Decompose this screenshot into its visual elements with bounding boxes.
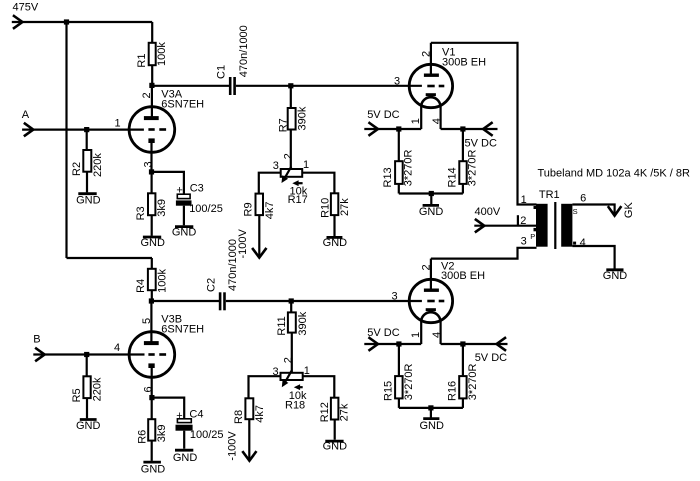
resistor R4 [135, 258, 168, 301]
pentode-section labels upper right: tube V1 [394, 43, 486, 129]
svg-text:R14: R14 [447, 167, 459, 187]
svg-text:220k: 220k [92, 153, 104, 177]
svg-text:4: 4 [114, 342, 120, 354]
svg-text:5V DC: 5V DC [367, 327, 399, 339]
svg-text:4k7: 4k7 [264, 202, 276, 220]
svg-text:2: 2 [420, 264, 432, 270]
svg-text:4: 4 [431, 332, 443, 338]
resistor R3 [135, 172, 168, 236]
svg-text:3: 3 [273, 160, 279, 172]
junction R16 top [460, 341, 465, 346]
svg-text:6SN7EH: 6SN7EH [161, 99, 204, 111]
wire cathode to C4 [152, 398, 184, 419]
svg-text:R11: R11 [276, 316, 288, 335]
svg-text:GND: GND [419, 206, 444, 218]
wire V2 pin4 to 5VDC right [441, 343, 508, 345]
svg-text:5V DC: 5V DC [475, 352, 507, 364]
svg-text:C2: C2 [206, 278, 218, 292]
svg-text:300B EH: 300B EH [442, 57, 486, 69]
svg-text:GND: GND [173, 452, 198, 464]
svg-text:220k: 220k [92, 377, 104, 401]
svg-text:6SN7EH: 6SN7EH [161, 324, 204, 336]
wire 475V rail vertical [65, 22, 67, 258]
svg-text:GK: GK [623, 202, 635, 219]
svg-text:1: 1 [521, 194, 527, 206]
svg-text:2: 2 [420, 51, 432, 57]
wire rail to R4 [67, 257, 153, 259]
svg-text:C1: C1 [215, 65, 227, 79]
wire 5VDC to V2 pin1 [364, 343, 421, 345]
junction R14 top [460, 126, 465, 131]
svg-text:6: 6 [580, 193, 586, 205]
resistor R7 [278, 86, 309, 169]
svg-text:1: 1 [303, 159, 309, 171]
ground R10 [323, 237, 348, 249]
resistor R5 [71, 355, 103, 419]
svg-text:390k: 390k [297, 311, 309, 335]
resistor R12 [319, 398, 351, 440]
svg-text:A: A [22, 109, 30, 121]
resistor R1 [136, 22, 168, 85]
wire pin2 stub [517, 215, 519, 226]
wire cathode to C3 [152, 172, 184, 194]
junction V3A cathode [149, 169, 154, 174]
svg-text:1: 1 [410, 118, 422, 124]
svg-text:27k: 27k [339, 403, 351, 421]
capacitor C3 [176, 183, 223, 226]
svg-text:R3: R3 [135, 206, 147, 220]
resistor R15 [382, 344, 415, 408]
svg-text:GND: GND [141, 464, 166, 476]
svg-text:GND: GND [76, 420, 101, 432]
ground R12 [323, 440, 348, 452]
svg-text:3: 3 [394, 75, 400, 87]
svg-text:6: 6 [143, 386, 155, 392]
svg-text:100/25: 100/25 [189, 203, 223, 215]
ground R3 [140, 237, 165, 249]
svg-text:2: 2 [282, 153, 294, 159]
wire V2 anode to transformer pin3 [431, 248, 537, 259]
wire pot R18 pin3 to R8 [249, 376, 281, 398]
svg-text:GND: GND [140, 237, 165, 249]
junction R13 top [396, 126, 401, 131]
ground R13/R14 [419, 205, 444, 218]
node A input arrow [25, 124, 33, 136]
resistor R16 [446, 344, 479, 408]
svg-text:R4: R4 [135, 279, 147, 293]
svg-text:100k: 100k [156, 42, 168, 66]
node 5VDC upper-left arrow [370, 123, 378, 135]
wire R1 to C1 [152, 85, 229, 87]
node -100V output arrow (R8) [243, 452, 256, 461]
svg-text:B: B [33, 334, 40, 346]
junction V3B cathode [149, 395, 154, 400]
transformer TR1 [520, 189, 586, 249]
potentiometer R18 [273, 357, 310, 411]
wire transformer pin4 to GND [572, 246, 614, 269]
wire R13/R14 bottoms [399, 192, 463, 194]
resistor R13 [382, 129, 415, 194]
resistor R9 [243, 194, 277, 258]
svg-text:-100V: -100V [226, 431, 238, 461]
capacitor C1 [215, 25, 250, 95]
svg-text:R13: R13 [382, 167, 394, 187]
svg-text:4: 4 [431, 118, 443, 124]
capacitor C4 [176, 409, 224, 449]
svg-text:GND: GND [419, 420, 444, 432]
ground C4 [173, 450, 198, 464]
node 5VDC lower-left arrow [370, 338, 378, 350]
svg-text:GND: GND [323, 237, 348, 249]
node 5VDC upper-right arrow [483, 123, 491, 135]
svg-text:5V DC: 5V DC [465, 138, 497, 150]
ground R5 [76, 420, 101, 433]
svg-text:Tubeland MD 102a 4K /5K / 8R: Tubeland MD 102a 4K /5K / 8R [538, 168, 691, 180]
svg-text:470n/1000: 470n/1000 [238, 25, 250, 77]
wire input A [22, 129, 144, 131]
svg-text:475V: 475V [13, 2, 39, 14]
node -100V output arrow (R9) [253, 249, 266, 258]
wire pot R18 pin1 to R12 [303, 376, 335, 398]
svg-text:R7: R7 [278, 118, 290, 132]
ground transformer pin4 [603, 270, 628, 282]
svg-text:3*270R: 3*270R [467, 363, 479, 400]
svg-text:3*270R: 3*270R [403, 363, 415, 400]
wire input B [33, 353, 144, 355]
svg-text:2: 2 [282, 357, 294, 363]
svg-text:GND: GND [603, 270, 628, 282]
svg-text:R1: R1 [136, 54, 148, 68]
svg-text:R2: R2 [71, 162, 83, 176]
junction R15 top [396, 341, 401, 346]
svg-text:5: 5 [141, 318, 153, 324]
tube V2 [392, 259, 486, 344]
svg-text:4k7: 4k7 [254, 405, 266, 423]
node GK output arrow [609, 207, 621, 215]
svg-text:R12: R12 [319, 402, 331, 422]
svg-text:R10: R10 [320, 198, 332, 218]
ground R15/R16 [419, 419, 444, 433]
svg-text:3: 3 [143, 161, 155, 167]
resistor R6 [137, 398, 168, 461]
svg-text:GND: GND [76, 194, 101, 206]
svg-text:1: 1 [115, 117, 121, 129]
svg-text:2: 2 [141, 92, 153, 98]
junction filament gnd upper [429, 191, 434, 196]
svg-text:100k: 100k [156, 269, 168, 293]
svg-text:GND: GND [172, 226, 197, 238]
junction R1 bottom [149, 83, 154, 88]
svg-text:P: P [530, 232, 535, 241]
wire 5VDC to V1 pin1 [364, 128, 421, 130]
svg-text:R6: R6 [137, 430, 149, 444]
svg-text:300B EH: 300B EH [441, 270, 485, 282]
svg-text:400V: 400V [475, 206, 501, 218]
node B input arrow [36, 349, 44, 361]
svg-text:3*270R: 3*270R [466, 150, 478, 187]
resistor R10 [320, 193, 351, 236]
node 475V input arrow [14, 16, 22, 28]
svg-text:3k9: 3k9 [156, 199, 168, 217]
wire R4 to C2 [151, 300, 219, 302]
svg-text:5V DC: 5V DC [367, 109, 399, 121]
svg-text:R5: R5 [71, 388, 83, 402]
svg-text:S: S [573, 207, 578, 216]
wire pot pin1 to R10 [302, 173, 334, 194]
triode V3B [114, 301, 204, 398]
junction R7 top [288, 83, 293, 88]
ground R6 [141, 462, 166, 476]
wire C1 to V1 grid [236, 85, 422, 87]
svg-text:R8: R8 [233, 410, 245, 424]
svg-text:R9: R9 [243, 202, 255, 216]
svg-text:100/25: 100/25 [190, 429, 224, 441]
resistor R14 [447, 129, 479, 194]
node 400V arrow [476, 220, 484, 232]
svg-text:GND: GND [323, 440, 348, 452]
svg-text:3k9: 3k9 [156, 424, 168, 442]
junction R2 top [84, 127, 89, 132]
wire transformer pin6 to GK [572, 205, 614, 214]
junction filament gnd lower [428, 405, 433, 410]
junction R11 top [289, 298, 294, 303]
ground C3 [172, 226, 197, 238]
wire C2 to V2 grid [226, 300, 422, 302]
svg-text:R15: R15 [382, 381, 394, 401]
svg-text:TR1: TR1 [539, 189, 560, 201]
resistor R11 [276, 301, 309, 373]
wire V1 anode to transformer pin1 [431, 43, 537, 205]
svg-text:1: 1 [410, 332, 422, 338]
svg-text:3*270R: 3*270R [403, 150, 415, 187]
svg-text:390k: 390k [296, 106, 308, 130]
svg-text:3: 3 [521, 235, 527, 247]
wire 400V to transformer pin2 [474, 225, 536, 227]
wire R15/R16 bottoms [399, 407, 463, 409]
junction R4 bottom [149, 298, 154, 303]
svg-text:C3: C3 [190, 183, 204, 195]
triode V3A [115, 86, 205, 172]
svg-text:R18: R18 [285, 400, 305, 412]
wire pot pin3 to R9 [259, 173, 281, 194]
wire 475V rail horizontal [12, 21, 152, 23]
svg-text:R16: R16 [446, 381, 458, 401]
resistor R2 [71, 130, 104, 193]
junction R5 top [84, 352, 89, 357]
svg-text:27k: 27k [339, 198, 351, 216]
ground R2 [76, 194, 101, 207]
svg-text:470n/1000: 470n/1000 [227, 239, 239, 291]
svg-text:R17: R17 [288, 194, 308, 206]
svg-text:4: 4 [580, 237, 586, 249]
wire V1 pin4 to 5VDC right [441, 128, 498, 130]
junction 475V rail [64, 19, 69, 24]
svg-text:2: 2 [520, 215, 526, 227]
node 5VDC lower-right arrow [497, 338, 505, 350]
resistor R8 [233, 398, 266, 461]
capacitor C2 [206, 239, 239, 310]
potentiometer R17 [273, 153, 309, 206]
